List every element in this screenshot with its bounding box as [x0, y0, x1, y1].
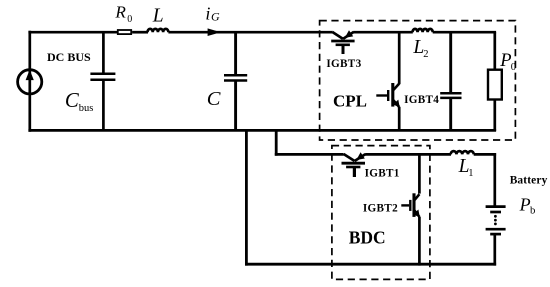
wire: bottom rail (y=264) [245, 263, 496, 266]
BDC dashed box [332, 146, 430, 280]
IGBT2 branch wire upper [418, 153, 421, 194]
resistor P0 [488, 70, 502, 100]
wire: middle rail (y=130.5) [28, 129, 496, 132]
battery branch wire upper [493, 153, 496, 206]
capacitor C_bus branch wire lower [102, 80, 105, 131]
P0 branch wire lower [493, 100, 496, 132]
IGBT3 [331, 30, 354, 54]
svg-text:b: b [530, 205, 535, 217]
transistor IGBT1 [342, 152, 366, 177]
svg-text:0: 0 [511, 62, 516, 73]
svg-text:2: 2 [423, 49, 428, 60]
current source U_dc (DC BUS) [18, 70, 42, 94]
inductor L [148, 29, 169, 32]
resistor R0 [118, 30, 131, 34]
svg-text:C: C [65, 89, 80, 112]
capacitor C_bus branch wire upper [102, 32, 105, 74]
svg-text:C: C [207, 88, 221, 110]
battery (Battery) [486, 207, 506, 235]
P0 branch wire upper [493, 32, 496, 70]
wire: top rail R0 to L [132, 31, 148, 34]
CPL dashed box [320, 21, 516, 140]
svg-text:bus: bus [79, 103, 94, 114]
capacitor C plates [224, 75, 247, 80]
svg-text:DC BUS: DC BUS [47, 50, 91, 64]
IGBT2 branch wire lower [418, 217, 421, 266]
arrowhead i_G [208, 28, 221, 36]
svg-text:Battery: Battery [510, 174, 548, 186]
wire: drop from middle rail to BDC input (x=276) [275, 129, 278, 156]
svg-text:L: L [152, 5, 164, 26]
svg-text:R: R [114, 3, 126, 22]
svg-text:0: 0 [127, 14, 132, 25]
wire: BDC top rail to IGBT1 [275, 153, 344, 156]
svg-text:IGBT2: IGBT2 [363, 203, 398, 215]
svg-text:P: P [499, 51, 511, 71]
wire: top rail L2 to P0 branch [433, 31, 496, 34]
CPL capacitor plates [440, 93, 461, 98]
wire: top rail from left corner to R0 [28, 31, 118, 34]
wire: top rail L to IGBT3 with current arrow [168, 31, 332, 34]
CPL capacitor branch wire lower [449, 98, 452, 131]
svg-text:1: 1 [468, 168, 473, 179]
svg-text:G: G [211, 10, 220, 24]
transistor IGBT2 [401, 193, 420, 217]
inductor L2 [413, 29, 433, 32]
svg-text:BDC: BDC [349, 228, 386, 248]
wire: left vertical bus (x=30) [28, 31, 31, 132]
wire: top rail IGBT3 to L2 [354, 31, 413, 34]
wire: drop from middle rail to bottom rail (x=246) [245, 129, 248, 266]
capacitor C_bus plates [90, 74, 115, 80]
inductor L1 [451, 151, 474, 154]
CPL capacitor branch wire upper [449, 32, 452, 93]
transistor IGBT4 [376, 83, 399, 107]
capacitor C branch wire lower [234, 81, 237, 132]
svg-text:i: i [205, 3, 210, 23]
svg-text:IGBT1: IGBT1 [365, 167, 400, 179]
wire: BDC top rail L1 to battery branch [474, 153, 496, 156]
svg-text:IGBT4: IGBT4 [404, 94, 439, 106]
capacitor C branch wire upper [234, 32, 237, 75]
svg-text:P: P [519, 194, 531, 214]
svg-text:CPL: CPL [333, 92, 367, 111]
IGBT4 branch wire lower [398, 107, 401, 131]
svg-text:IGBT3: IGBT3 [326, 58, 361, 70]
battery branch wire lower [493, 234, 496, 266]
IGBT4 branch wire upper [398, 32, 401, 84]
wire: BDC top rail IGBT1 to L1 [365, 153, 451, 156]
